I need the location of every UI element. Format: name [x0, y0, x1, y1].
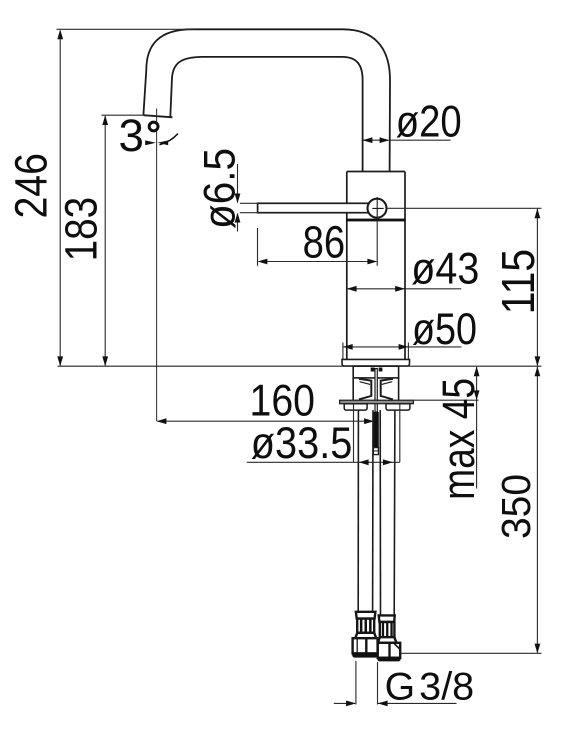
- svg-text:ø6.5: ø6.5: [195, 148, 244, 229]
- svg-text:350: 350: [493, 474, 539, 539]
- dimension max 45: [414, 366, 480, 488]
- degree ring: [149, 122, 158, 131]
- spout outer contour: [143, 29, 390, 171]
- svg-text:3: 3: [119, 110, 145, 161]
- left hose connector: [353, 612, 378, 654]
- cap joint dark band: [346, 219, 405, 222]
- svg-text:max 45: max 45: [433, 378, 484, 500]
- fork left arm: [359, 379, 371, 400]
- dimension 246: [57, 29, 196, 366]
- fork outer legs: [352, 378, 354, 400]
- body right wall: [404, 172, 406, 360]
- shank tabs: [371, 368, 375, 372]
- dimension 350: [401, 366, 542, 653]
- svg-text:ø20: ø20: [396, 98, 462, 147]
- dimension 160: [157, 418, 374, 424]
- counter line: [58, 365, 542, 367]
- fork right arm: [381, 379, 393, 400]
- ball cross: [372, 197, 383, 222]
- rod tip: [373, 448, 378, 455]
- dimension 115: [387, 208, 542, 366]
- dimension 86: [258, 221, 378, 265]
- spout outlet mouth: [143, 115, 172, 117]
- dimension G3/8: [334, 661, 457, 706]
- outlet vertical centerline: [156, 109, 158, 422]
- svg-text:3/8: 3/8: [419, 665, 474, 708]
- right hose: [379, 410, 381, 615]
- angle arrowheads: [145, 140, 156, 145]
- left hose: [357, 410, 359, 612]
- shank below counter: [353, 366, 398, 378]
- dimension diameter 50: [343, 343, 462, 359]
- washer left foot: [344, 404, 367, 410]
- svg-text:115: 115: [492, 249, 544, 315]
- ball joint: [368, 199, 387, 218]
- svg-text:G: G: [385, 665, 416, 708]
- base flange: [342, 359, 410, 366]
- washer right foot: [386, 404, 410, 410]
- svg-text:246: 246: [5, 153, 56, 219]
- svg-text:ø33.5: ø33.5: [251, 419, 352, 468]
- dimension diameter 43: [347, 286, 461, 292]
- lever handle: [258, 203, 369, 212]
- dimension diameter 33.5: [247, 404, 400, 465]
- dimension 183: [102, 115, 145, 366]
- svg-text:86: 86: [303, 216, 346, 267]
- mounting washer: [340, 400, 414, 404]
- svg-text:183: 183: [56, 197, 107, 262]
- right hose connector: [378, 615, 401, 657]
- svg-text:ø43: ø43: [411, 245, 479, 294]
- body cap top: [347, 171, 405, 173]
- threaded rod: [375, 369, 377, 413]
- body left wall: [346, 172, 348, 360]
- dimension diameter 20: [363, 137, 451, 143]
- spout inner contour: [170, 57, 362, 172]
- angle arc: [160, 134, 179, 145]
- dimension diameter 6.5: [235, 164, 258, 232]
- svg-text:ø50: ø50: [412, 305, 477, 354]
